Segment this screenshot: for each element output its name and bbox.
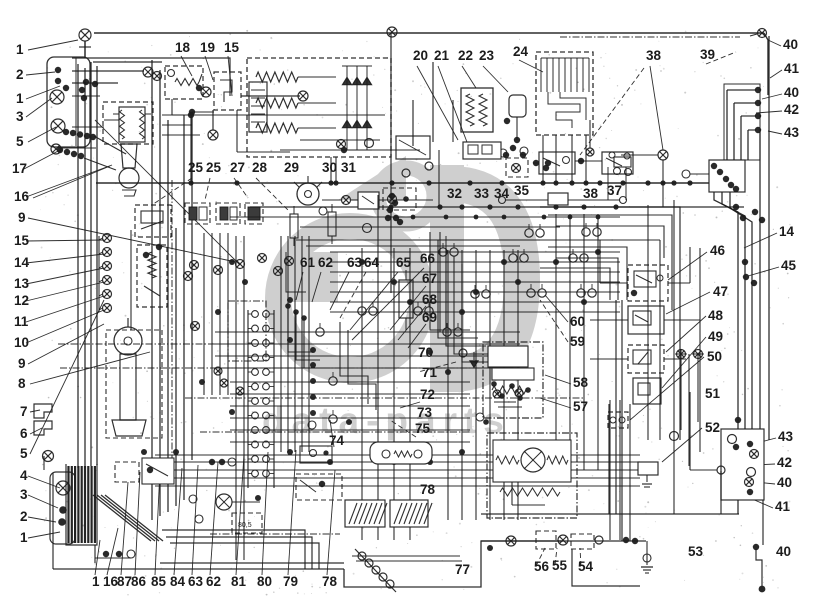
terminal cluster C [51,144,84,159]
connector cluster 35 [319,150,439,233]
junction pair top [143,67,162,81]
svg-text:38: 38 [646,48,662,63]
svg-text:3: 3 [20,487,28,502]
connector chain [355,549,396,592]
svg-text:62: 62 [206,574,221,589]
relay box K3 [216,203,240,224]
terminal dots headlamp [55,67,69,91]
svg-text:78: 78 [322,574,338,589]
ground right [641,541,653,573]
svg-text:25: 25 [206,160,222,175]
relay74 box [370,442,432,464]
svg-text:81: 81 [231,574,247,589]
resistor item 76 [399,270,413,330]
leaders 57-58 [540,295,571,408]
svg-text:19: 19 [200,40,215,55]
svg-text:27: 27 [230,160,245,175]
svg-text:79: 79 [283,574,298,589]
horn box dash [296,474,342,500]
wire bottom buses [53,192,739,587]
svg-text:23: 23 [479,48,495,63]
relay box 18-19 [165,66,203,99]
svg-text:55: 55 [552,558,568,573]
lamp L2 [51,119,65,133]
svg-text:31: 31 [341,160,357,175]
component 50 connector [608,412,628,428]
ignition coil box [103,102,153,144]
wire top-left runs [72,58,214,120]
motor M1 [216,494,260,510]
svg-text:66: 66 [420,251,436,266]
wire left bundle [78,60,192,520]
svg-text:24: 24 [513,44,529,59]
dashdot box ladder [228,301,266,361]
wire mid-right feeds [590,170,700,359]
junction 57a [459,349,489,425]
svg-text:57: 57 [573,399,588,414]
wire top border [94,32,764,34]
terminal strip left [99,234,112,313]
wire headlamp feeds [72,41,144,127]
svg-text:47: 47 [713,284,728,299]
svg-text:7: 7 [20,404,28,419]
svg-text:9: 9 [18,356,26,371]
midleft circle row [143,244,294,395]
fuse item b [328,204,336,244]
relay tall box [137,245,167,307]
svg-text:84: 84 [170,574,186,589]
terminal cluster A [79,79,98,101]
small terminals BL [189,495,203,523]
horn HA2 [390,500,432,527]
component 46 box [628,265,668,301]
svg-text:1: 1 [16,91,24,106]
relay boxes BL [115,458,174,484]
lamp cluster BL [50,472,75,544]
component 38 [499,193,627,205]
svg-text:15: 15 [14,233,30,248]
svg-text:64: 64 [364,255,380,270]
svg-text:58: 58 [573,375,589,390]
mid-right leaders [520,252,710,462]
svg-text:72: 72 [420,387,435,402]
starter motor [487,433,577,518]
relay box K4 [245,203,263,224]
svg-text:29: 29 [284,160,299,175]
wire bus upper [172,91,385,140]
fuel sender 52 [638,462,658,487]
svg-text:38: 38 [583,186,599,201]
svg-text:18: 18 [175,40,191,55]
svg-text:46: 46 [710,243,726,258]
wire rear drop [753,500,766,592]
horn HA1 [345,500,387,527]
fuse item a [290,206,298,246]
svg-text:35: 35 [514,183,530,198]
wire ign-to-bundle [60,115,200,148]
svg-text:40: 40 [784,85,799,100]
svg-text:63: 63 [188,574,204,589]
wire verticals upper-center [378,33,453,293]
svg-text:51: 51 [705,386,721,401]
right bundle joins [733,204,765,435]
svg-text:2: 2 [16,67,24,82]
wire center vertical web [131,214,620,560]
right harness box [724,84,760,160]
left reference numbers 1-17 [12,42,30,545]
relay leaders [152,178,288,210]
svg-text:8: 8 [18,376,26,391]
svg-text:15: 15 [224,40,240,55]
wire right outer [764,33,768,95]
wire bus3 [230,217,620,227]
svg-text:77: 77 [455,562,470,577]
svg-text:41: 41 [775,499,791,514]
wire cluster diag [84,136,126,170]
relay box K2 [185,203,210,224]
svg-text:21: 21 [434,48,450,63]
generator G1 [247,58,391,157]
top reference numbers [175,40,715,63]
junction J-a [188,112,194,183]
junction row BL [95,458,236,558]
svg-text:32: 32 [447,186,462,201]
wire center horizontal web [155,252,640,486]
switch box 35a [396,136,430,159]
svg-text:20: 20 [413,48,428,63]
svg-text:49: 49 [708,329,723,344]
junction 38 [608,150,668,207]
lamp pairs [316,223,601,423]
bottom label leaders [95,450,581,575]
svg-text:40: 40 [777,475,792,490]
svg-text:5: 5 [20,446,28,461]
svg-text:59: 59 [570,334,585,349]
dash box 80 [232,513,262,533]
svg-text:50: 50 [707,349,722,364]
switch chain bottom [481,531,646,549]
ignition coil [113,107,151,196]
switch box 35b [383,188,416,210]
leaders 61-69 [296,268,456,462]
wire nested corners right [540,207,680,440]
component 47 box [628,306,664,334]
component 74 box [300,419,352,463]
svg-text:45: 45 [781,258,797,273]
svg-text:80: 80 [257,574,272,589]
switch cluster S1 [463,142,501,159]
wire right bundle [714,36,769,514]
wire left lower frame [43,456,45,470]
svg-text:60: 60 [570,314,585,329]
svg-text:1: 1 [92,574,100,589]
watermark [262,156,522,441]
relay box K1 [135,205,171,237]
svg-text:37: 37 [607,183,622,198]
svg-text:40: 40 [776,544,791,559]
svg-text:41: 41 [784,61,800,76]
wire mid-right verticals [648,200,700,514]
distributor [112,318,146,436]
bottom reference numbers [92,558,594,589]
svg-text:6: 6 [20,426,28,441]
lamp diodes 49-50 [675,350,704,359]
wire screen lines [58,344,585,432]
junction top-left terminal [79,29,91,58]
junction small [189,87,211,115]
junction right low [690,392,725,474]
svg-text:65: 65 [396,255,412,270]
svg-text:2: 2 [20,509,28,524]
svg-text:4: 4 [20,468,28,483]
right bundle terminals [755,87,761,133]
svg-text:3: 3 [16,109,24,124]
wire battery diag [93,495,163,541]
svg-text:85: 85 [151,574,167,589]
svg-text:80,5: 80,5 [238,522,252,529]
svg-text:1: 1 [20,530,28,545]
svg-text:22: 22 [458,48,473,63]
plug item6 [34,421,52,435]
headlamp cluster box [47,57,90,147]
svg-text:62: 62 [318,255,333,270]
relay cluster R2 [602,152,633,174]
generator terminals [280,139,420,184]
coil pointer [33,120,240,265]
switch cluster S2 [506,158,528,177]
svg-text:33: 33 [474,186,490,201]
svg-text:75: 75 [415,421,431,436]
svg-text:42: 42 [784,102,799,117]
wire vert pair right-center [609,300,630,541]
component 49 box [633,378,661,404]
fuse box 24 [536,52,593,135]
svg-text:43: 43 [784,125,800,140]
junction 41-wire [720,471,722,514]
cluster dots 2023 [402,145,551,177]
svg-text:53: 53 [688,544,704,559]
coil 31 box [358,192,433,209]
junction 51 [670,432,679,441]
junction top-right [750,29,767,38]
wire feed A [158,58,290,152]
resistor box 22 [461,88,493,132]
rear lamp cluster [721,429,764,500]
connector ladder [248,310,274,488]
svg-text:52: 52 [705,420,720,435]
svg-text:39: 39 [700,47,715,62]
svg-text:5: 5 [16,134,24,149]
terminal cluster B [63,129,96,140]
cluster joins [575,120,602,164]
svg-text:1: 1 [16,42,24,57]
junction top-mid [387,27,397,37]
svg-text:25: 25 [188,160,204,175]
svg-text:14: 14 [779,224,795,239]
switch box 23 [504,95,526,143]
svg-text:34: 34 [494,186,510,201]
dashdot run BL [210,533,340,535]
wire main bus [96,37,740,183]
svg-text:9: 9 [18,210,26,225]
relay cluster R1 [533,152,575,174]
svg-text:71: 71 [422,365,438,380]
right label leaders [744,40,782,508]
distributor box [106,330,162,438]
connector box 15 [214,72,241,110]
svg-text:28: 28 [252,160,268,175]
wire fuse-drop [543,135,586,183]
svg-text:30: 30 [322,160,337,175]
lamp L1 [50,90,64,104]
junction battery [43,451,54,462]
svg-text:78: 78 [420,482,436,497]
junction 30-31 [322,196,358,205]
svg-text:56: 56 [534,559,550,574]
svg-text:43: 43 [778,429,794,444]
svg-text:86: 86 [131,574,147,589]
wire center nest [285,232,540,410]
wire bus4 [413,239,660,241]
battery GB1 [66,464,97,545]
svg-text:48: 48 [708,308,724,323]
component 48 box [628,345,664,373]
relay box 57-58 [483,342,543,418]
svg-text:87: 87 [117,574,132,589]
bus junction dots [188,180,692,219]
wire bus2 [250,206,744,208]
left label leader lines [24,40,236,538]
top label leaders [181,52,736,155]
svg-text:40: 40 [783,37,798,52]
right reference numbers [688,37,800,559]
svg-text:42: 42 [777,455,792,470]
connector block right [682,160,745,192]
inner reference numbers [188,160,728,497]
plug item7 [34,404,52,418]
wire battery-out runs [162,530,319,569]
distributor 30 [294,176,322,205]
